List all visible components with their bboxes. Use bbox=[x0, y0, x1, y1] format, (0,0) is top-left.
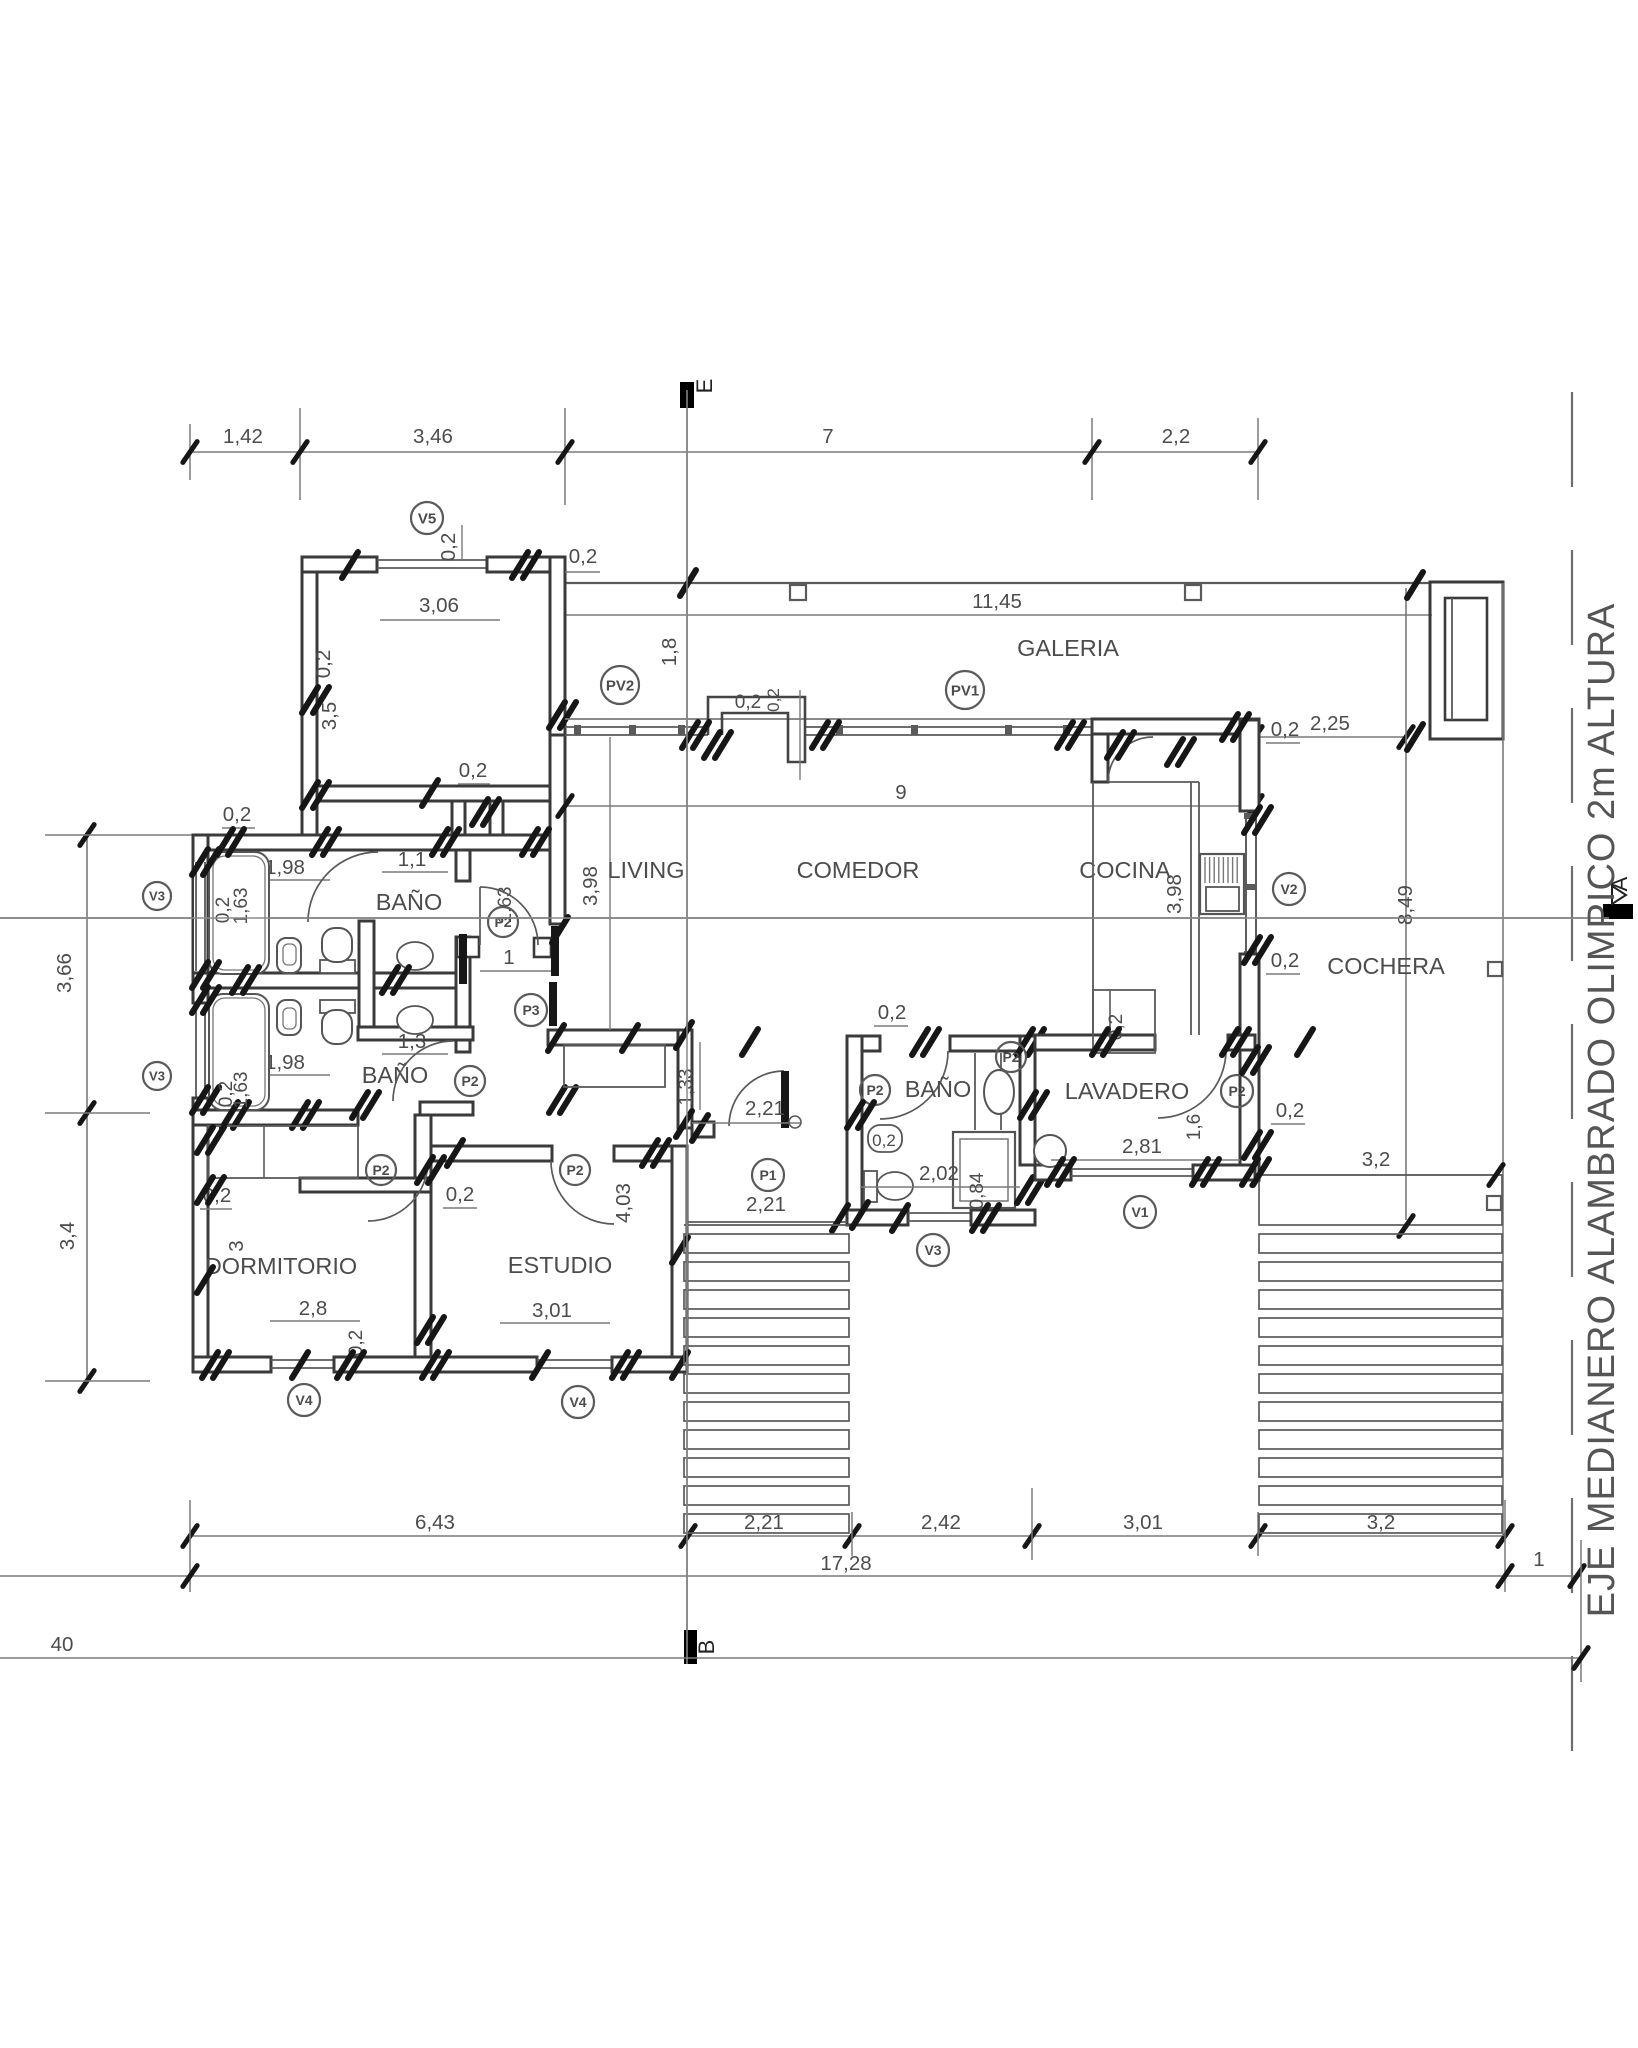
bathtub bath1 bbox=[209, 852, 269, 974]
dim tick bbox=[1251, 442, 1265, 463]
svg-text:3,46: 3,46 bbox=[413, 425, 453, 448]
svg-text:0,2: 0,2 bbox=[223, 803, 252, 826]
wall hatch bbox=[1020, 1092, 1036, 1118]
svg-text:COMEDOR: COMEDOR bbox=[797, 857, 920, 883]
dim tick bbox=[1498, 1566, 1512, 1587]
window mullion bbox=[629, 725, 636, 735]
wall hatch bbox=[312, 829, 328, 855]
svg-text:P2: P2 bbox=[566, 1162, 583, 1178]
ext line 1,33 bbox=[699, 1042, 701, 1110]
wall hatch bbox=[232, 967, 248, 993]
door jamb bbox=[457, 937, 479, 957]
extension line bbox=[299, 408, 301, 500]
svg-text:3,06: 3,06 bbox=[419, 594, 459, 617]
dormitorio2 closet bbox=[208, 1126, 358, 1178]
window V5 bbox=[377, 559, 487, 561]
wall hatch bbox=[812, 722, 828, 748]
extension line bbox=[1091, 418, 1093, 500]
cocina north wall bbox=[1092, 719, 1259, 734]
door leaf wc bbox=[459, 934, 467, 984]
wall hatch bbox=[222, 1102, 238, 1128]
wall hatch bbox=[532, 1352, 548, 1378]
wall hatch bbox=[197, 1177, 213, 1203]
svg-text:E: E bbox=[692, 379, 717, 394]
kitchen stove bbox=[1200, 854, 1244, 914]
bath3 west wall bbox=[847, 1036, 862, 1210]
wall hatch bbox=[1297, 1029, 1313, 1055]
bath block north wall bbox=[193, 835, 565, 850]
label circle V4 bbox=[288, 1384, 320, 1416]
svg-text:V5: V5 bbox=[418, 510, 436, 527]
bidet bath2 bbox=[277, 1000, 301, 1035]
svg-text:P3: P3 bbox=[522, 1002, 539, 1018]
svg-text:GALERIA: GALERIA bbox=[1017, 635, 1119, 661]
axis A horizontal line bbox=[0, 917, 1609, 919]
stair structure divider bbox=[1451, 598, 1453, 720]
axis A marker bbox=[1603, 904, 1633, 919]
wall hatch bbox=[1057, 722, 1073, 748]
svg-text:EJE MEDIANERO ALAMBRADO OLI: EJE MEDIANERO ALAMBRADO OLIMPICO 2m ALTU… bbox=[1581, 603, 1623, 1618]
svg-text:LIVING: LIVING bbox=[607, 857, 684, 883]
entry west wall bbox=[678, 1030, 692, 1128]
bath3 south wall right bbox=[971, 1210, 1035, 1225]
wall hatch bbox=[1017, 1029, 1033, 1055]
extension line bbox=[1031, 1488, 1033, 1560]
property line dashed bbox=[1571, 392, 1573, 1780]
cocina/lavadero east wall lower bbox=[1240, 954, 1259, 1180]
toilet bath2 bbox=[320, 1000, 355, 1013]
svg-text:1,42: 1,42 bbox=[223, 425, 263, 448]
svg-text:V4: V4 bbox=[295, 1392, 312, 1408]
svg-text:1,98: 1,98 bbox=[265, 1051, 305, 1074]
svg-text:0,2: 0,2 bbox=[735, 692, 761, 713]
label circle P2 lavadero bbox=[1221, 1075, 1253, 1107]
label circle V5 bbox=[411, 502, 443, 534]
hatch bbox=[1407, 724, 1423, 750]
wall hatch bbox=[197, 1127, 213, 1153]
svg-text:1: 1 bbox=[503, 946, 514, 969]
extension line bbox=[45, 1380, 150, 1382]
wall hatch bbox=[622, 1025, 638, 1051]
door swing cocina bbox=[1108, 737, 1153, 782]
dim line 3,06 bbox=[380, 619, 500, 621]
bath2 south wall left bbox=[193, 1110, 358, 1125]
wall hatch bbox=[217, 829, 233, 855]
dim tick bbox=[293, 442, 307, 463]
svg-text:ESTUDIO: ESTUDIO bbox=[508, 1252, 612, 1278]
bath3 south wall left bbox=[847, 1210, 908, 1225]
dim tick bbox=[80, 1371, 94, 1392]
label circle P2 bath2 bbox=[455, 1066, 485, 1096]
dim tick bbox=[80, 1103, 94, 1124]
svg-text:2,42: 2,42 bbox=[921, 1511, 961, 1534]
ext line bbox=[799, 690, 801, 780]
door swing hall P2 bbox=[480, 887, 538, 945]
wall hatch bbox=[197, 1267, 213, 1293]
dormitorio1 north wall right bbox=[487, 557, 565, 572]
wall hatch bbox=[672, 1237, 688, 1263]
estudio east wall bbox=[672, 1146, 687, 1372]
fireplace bbox=[708, 697, 805, 762]
svg-text:3,4: 3,4 bbox=[56, 1222, 79, 1251]
extension line bbox=[189, 1500, 191, 1592]
wc2 south wall bbox=[358, 1027, 473, 1040]
svg-text:3,66: 3,66 bbox=[53, 953, 76, 993]
wall hatch bbox=[1222, 1029, 1238, 1055]
svg-text:0,2: 0,2 bbox=[872, 1131, 896, 1150]
wall hatch bbox=[852, 1202, 868, 1228]
ext line bbox=[565, 571, 600, 573]
svg-text:0,2: 0,2 bbox=[764, 688, 783, 712]
south wall segment bbox=[612, 1357, 687, 1372]
wall hatch bbox=[192, 987, 208, 1013]
svg-text:3,5: 3,5 bbox=[318, 702, 341, 731]
window mullion bbox=[678, 725, 685, 735]
svg-text:40: 40 bbox=[51, 1633, 74, 1656]
washing machine bbox=[1034, 1135, 1066, 1167]
bottom dimension line 1 bbox=[190, 1535, 1505, 1537]
label circle V1 bbox=[1124, 1196, 1156, 1228]
door leaf P3 bbox=[549, 982, 557, 1026]
svg-text:P2: P2 bbox=[494, 914, 511, 930]
wall hatch bbox=[1107, 732, 1123, 758]
svg-text:BAÑO: BAÑO bbox=[376, 889, 443, 915]
dim tick bbox=[1498, 1526, 1512, 1547]
label circle V3 bbox=[143, 1062, 171, 1090]
window mullion bbox=[1005, 725, 1012, 735]
kitchen counter line bbox=[1108, 781, 1199, 783]
lavadero south wall left bbox=[1035, 1165, 1071, 1180]
svg-text:2,25: 2,25 bbox=[1310, 712, 1350, 735]
right deck planks bbox=[1259, 1234, 1502, 1253]
estudio north wall right bbox=[614, 1146, 672, 1161]
dim tick bbox=[183, 442, 197, 463]
wall hatch bbox=[1192, 1159, 1208, 1185]
svg-text:0,2: 0,2 bbox=[1271, 718, 1300, 741]
svg-text:P2: P2 bbox=[1228, 1083, 1245, 1099]
door leaf entry bbox=[781, 1071, 789, 1128]
svg-text:3: 3 bbox=[225, 1240, 248, 1251]
window V2 lines bbox=[1245, 813, 1247, 954]
wc divider wall lower bbox=[456, 937, 470, 1052]
wall hatch bbox=[642, 1140, 658, 1166]
wall hatch bbox=[192, 849, 208, 875]
wall hatch bbox=[202, 1352, 218, 1378]
wc toilet bath2 bbox=[397, 1006, 433, 1034]
extension line bbox=[851, 1512, 853, 1556]
bottom dimension line 3 (40 m) bbox=[0, 1657, 1581, 1659]
wall hatch bbox=[512, 552, 528, 578]
svg-text:11,45: 11,45 bbox=[972, 590, 1022, 613]
svg-text:0,2: 0,2 bbox=[459, 759, 488, 782]
stair structure inner bbox=[1445, 598, 1487, 720]
dormitorio1 west wall bbox=[302, 557, 317, 835]
entry closet bbox=[564, 1045, 665, 1087]
wall hatch bbox=[472, 799, 488, 825]
label circle V4 bbox=[562, 1386, 594, 1418]
door swing lavadero bbox=[1158, 1050, 1226, 1118]
vanity counter bbox=[974, 1053, 976, 1130]
wall hatch bbox=[692, 1115, 708, 1141]
left dimension line bbox=[86, 833, 88, 1382]
svg-text:0,2: 0,2 bbox=[878, 1001, 907, 1024]
axis E-B vertical line bbox=[686, 390, 688, 1664]
label circle PV1 bbox=[946, 671, 984, 709]
svg-text:P2: P2 bbox=[461, 1073, 478, 1089]
west wall mid segment bbox=[193, 973, 208, 1003]
extension line bbox=[189, 424, 191, 480]
closet line bbox=[1109, 990, 1111, 1053]
wall hatch bbox=[1242, 1159, 1258, 1185]
svg-text:2,8: 2,8 bbox=[299, 1297, 328, 1320]
wall hatch bbox=[1017, 1177, 1033, 1203]
hatch at axis E on galeria line bbox=[680, 570, 696, 596]
svg-text:2,2: 2,2 bbox=[1162, 425, 1191, 448]
svg-text:P2: P2 bbox=[1002, 1049, 1019, 1065]
svg-text:LAVADERO: LAVADERO bbox=[1065, 1078, 1190, 1104]
bidet bath1 bbox=[277, 938, 301, 973]
wall hatch bbox=[676, 1022, 692, 1048]
svg-text:0,2: 0,2 bbox=[213, 897, 234, 923]
lavadero north wall right bbox=[1228, 1035, 1255, 1050]
cochera left boundary line bbox=[1405, 588, 1407, 1220]
door leaf P3 sliding bbox=[551, 926, 559, 976]
dim tick bbox=[558, 442, 572, 463]
svg-text:0,2: 0,2 bbox=[1271, 949, 1300, 972]
dim tick bbox=[845, 1526, 859, 1547]
window V3 lower lines bbox=[195, 1005, 197, 1098]
wall hatch bbox=[302, 782, 318, 808]
label circle P2 estudio bbox=[560, 1155, 590, 1185]
dim tick bbox=[558, 796, 572, 817]
wall hatch bbox=[892, 1205, 908, 1231]
extension line bbox=[1257, 1512, 1259, 1556]
svg-text:0,2: 0,2 bbox=[312, 650, 335, 679]
dim tick bbox=[1574, 1648, 1588, 1669]
wall hatch bbox=[1244, 1132, 1260, 1158]
door leaf line bbox=[479, 887, 481, 945]
entry threshold line bbox=[692, 1122, 800, 1124]
svg-text:0,2: 0,2 bbox=[569, 545, 598, 568]
dim tick bbox=[1489, 1165, 1503, 1186]
cochera post bbox=[1488, 962, 1502, 976]
axis E-B line overlay bbox=[686, 390, 688, 1664]
bath3 sink bbox=[984, 1070, 1014, 1114]
svg-text:7: 7 bbox=[822, 425, 833, 448]
axis E marker bbox=[680, 382, 694, 408]
window mullion bbox=[911, 725, 918, 735]
ext line bbox=[458, 783, 490, 785]
svg-text:0,84: 0,84 bbox=[967, 1172, 988, 1209]
svg-text:6,43: 6,43 bbox=[415, 1511, 455, 1534]
wall hatch bbox=[192, 1087, 208, 1113]
wall hatch bbox=[549, 702, 565, 728]
cochera post bbox=[1487, 1196, 1501, 1210]
window V3 bath3 bbox=[908, 1212, 971, 1214]
svg-text:COCHERA: COCHERA bbox=[1327, 953, 1445, 979]
dormitorio1 east wall bbox=[550, 557, 565, 790]
wall hatch bbox=[1092, 1029, 1108, 1055]
wall hatch bbox=[417, 1157, 433, 1183]
ext line bbox=[461, 525, 463, 560]
svg-text:P1: P1 bbox=[759, 1167, 776, 1183]
entry nib wall bbox=[692, 1122, 714, 1137]
wall hatch bbox=[192, 962, 208, 988]
svg-text:9: 9 bbox=[895, 781, 906, 804]
wall between baths bbox=[208, 973, 456, 988]
south wall segment bbox=[193, 1357, 271, 1372]
dim tick bbox=[183, 1526, 197, 1547]
closet divider bbox=[263, 1126, 265, 1178]
wall hatch bbox=[447, 1140, 463, 1166]
bath3 bidet bbox=[868, 1125, 902, 1152]
bath3 toilet bbox=[864, 1171, 877, 1202]
svg-text:V3: V3 bbox=[149, 1069, 165, 1084]
window mullion bbox=[574, 725, 581, 735]
toilet/sink cabin divider wall bbox=[359, 921, 374, 1030]
vanity counter bbox=[1000, 1053, 1002, 1130]
svg-text:0,2: 0,2 bbox=[437, 533, 460, 562]
window V3 upper bbox=[195, 862, 197, 971]
dim tick bbox=[1025, 1526, 1039, 1547]
svg-text:P2: P2 bbox=[372, 1162, 389, 1178]
svg-text:1,63: 1,63 bbox=[231, 888, 252, 925]
galeria post bbox=[1185, 585, 1201, 600]
bottom dimension line 2 bbox=[0, 1575, 1581, 1577]
threshold symbol bbox=[789, 1116, 801, 1128]
wall hatch bbox=[549, 1087, 565, 1113]
door swing dormitorio2 bbox=[368, 1161, 428, 1221]
dim tick bbox=[1248, 796, 1262, 817]
window V4 right bbox=[537, 1359, 612, 1361]
wall hatch bbox=[742, 1029, 758, 1055]
wall hatch bbox=[672, 1352, 688, 1378]
wall hatch bbox=[552, 917, 568, 943]
dim line 11,45 bbox=[565, 614, 1432, 616]
svg-text:17,28: 17,28 bbox=[820, 1552, 871, 1575]
svg-text:V2: V2 bbox=[1280, 881, 1297, 897]
wall hatch bbox=[302, 687, 318, 713]
wall hatch bbox=[676, 1111, 692, 1137]
label circle P2 dorm2 bbox=[366, 1155, 396, 1185]
wall hatch bbox=[1222, 714, 1238, 740]
svg-text:P2: P2 bbox=[866, 1082, 883, 1098]
wall hatch bbox=[292, 1102, 308, 1128]
dim tick bbox=[80, 825, 94, 846]
label circle V2 bbox=[1273, 873, 1305, 905]
bathtub bath2 bbox=[209, 994, 269, 1110]
toilet bath1 bbox=[320, 960, 355, 973]
wall hatch bbox=[522, 829, 538, 855]
svg-text:B: B bbox=[694, 1640, 719, 1655]
dim tick bbox=[1248, 727, 1262, 748]
wall hatch bbox=[612, 1352, 628, 1378]
kitchen counter line bbox=[1190, 782, 1192, 1035]
door jamb bbox=[534, 938, 551, 957]
dim tick bbox=[1252, 1165, 1266, 1186]
svg-text:3,01: 3,01 bbox=[532, 1299, 572, 1322]
svg-text:3,2: 3,2 bbox=[1362, 1148, 1391, 1171]
dim tick bbox=[1251, 1526, 1265, 1547]
west wall upper segment bbox=[193, 835, 208, 973]
extension line bbox=[564, 408, 566, 505]
wc toilet bath1 bbox=[397, 942, 433, 970]
extension line bbox=[1580, 1540, 1582, 1682]
cochera apron slab bbox=[1259, 1175, 1502, 1225]
dim line 9 bbox=[565, 805, 1255, 807]
dim tick bbox=[681, 1526, 695, 1547]
top dimension line bbox=[190, 451, 1258, 453]
extension line bbox=[45, 834, 193, 836]
wall dormitorio2/estudio bbox=[415, 1115, 431, 1357]
bath3 east wall bbox=[1020, 1036, 1035, 1165]
left deck planks bbox=[684, 1224, 849, 1226]
dim line 2,25 bbox=[1255, 736, 1406, 738]
bath3 shower bbox=[953, 1132, 1015, 1208]
svg-text:V1: V1 bbox=[1131, 1204, 1148, 1220]
hatch bbox=[1407, 572, 1423, 598]
cocina step wall bbox=[1092, 734, 1108, 782]
wall hatch bbox=[422, 780, 438, 806]
svg-text:1,8: 1,8 bbox=[658, 638, 681, 667]
wall hatch bbox=[1244, 937, 1260, 963]
svg-text:V3: V3 bbox=[924, 1242, 941, 1258]
svg-text:0,2: 0,2 bbox=[216, 1081, 237, 1107]
extension line bbox=[1257, 418, 1259, 500]
svg-text:0,2: 0,2 bbox=[1276, 1099, 1305, 1122]
label circle P3 bbox=[515, 994, 547, 1026]
extension line bbox=[45, 1112, 150, 1114]
dim line 3,2 cochera bbox=[1259, 1174, 1502, 1176]
wall hatch bbox=[292, 1352, 308, 1378]
svg-text:4,03: 4,03 bbox=[612, 1183, 635, 1223]
svg-text:1,98: 1,98 bbox=[265, 856, 305, 879]
svg-text:2,81: 2,81 bbox=[1122, 1135, 1162, 1158]
extension line bbox=[1504, 1500, 1506, 1592]
wall hatch bbox=[417, 1317, 433, 1343]
wall hatch bbox=[352, 1092, 368, 1118]
window V2 bbox=[1245, 813, 1247, 954]
svg-text:0,2: 0,2 bbox=[446, 1183, 475, 1206]
roof overhang line bbox=[565, 718, 1092, 720]
wall hatch bbox=[422, 1352, 438, 1378]
dormitorio1 north wall left bbox=[302, 557, 377, 572]
svg-text:BAÑO: BAÑO bbox=[905, 1076, 972, 1102]
axis A line overlay bbox=[0, 917, 1609, 919]
dim line 2,81 bbox=[1051, 1159, 1240, 1161]
window mullion bbox=[1244, 884, 1256, 890]
window mullion bbox=[1244, 951, 1256, 957]
axis B marker bbox=[684, 1630, 697, 1664]
door swing bath3 bbox=[880, 1051, 948, 1119]
bath3 north wall left bbox=[847, 1036, 880, 1051]
label circle V3 bath3 bbox=[917, 1234, 949, 1266]
wc divider wall upper bbox=[456, 850, 470, 881]
dormitorio2 closet wall bbox=[300, 1178, 431, 1192]
south wall segment bbox=[334, 1357, 537, 1372]
svg-text:3,01: 3,01 bbox=[1123, 1511, 1163, 1534]
wall hatch bbox=[682, 722, 698, 748]
hall south wall bbox=[548, 1030, 682, 1045]
svg-text:8,49: 8,49 bbox=[1394, 885, 1417, 925]
svg-text:1,6: 1,6 bbox=[1184, 1114, 1205, 1140]
wall hatch bbox=[432, 829, 448, 855]
bath2 south nib wall bbox=[420, 1102, 473, 1115]
wall hatch bbox=[704, 732, 720, 758]
svg-text:3,98: 3,98 bbox=[579, 866, 602, 906]
window V3 upper lines bbox=[195, 862, 197, 971]
closet stub bbox=[452, 801, 465, 835]
